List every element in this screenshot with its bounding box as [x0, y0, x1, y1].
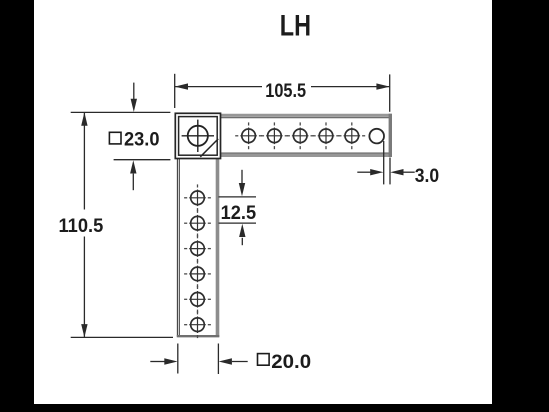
- vertical hole V1: [184, 184, 211, 211]
- corner pad chamfer diagonal: [200, 139, 218, 157]
- dimension 105.5: [175, 74, 390, 112]
- vertical hole V6: [184, 311, 211, 338]
- end hole (plain): [369, 129, 384, 144]
- svg-text:LH: LH: [280, 9, 311, 42]
- arm hole A2: [261, 122, 288, 149]
- corner pad inner square: [179, 117, 218, 156]
- vertical hole V4: [184, 261, 211, 288]
- svg-text:20.0: 20.0: [271, 351, 311, 373]
- vertical arm outline: [177, 157, 220, 337]
- corner hole: [182, 120, 214, 152]
- dimension 23.0: [114, 83, 171, 191]
- right letterbox bar: [492, 0, 549, 412]
- vertical hole V2: [184, 210, 211, 237]
- arm hole A1: [235, 122, 262, 149]
- corner pad outer square: [175, 113, 220, 158]
- arm hole A3: [287, 122, 314, 149]
- svg-text:3.0: 3.0: [415, 165, 439, 187]
- left letterbox bar: [0, 0, 34, 412]
- vertical hole V3: [184, 235, 211, 262]
- arm hole A5: [338, 122, 365, 149]
- svg-text:110.5: 110.5: [59, 215, 104, 237]
- vertical hole V5: [184, 286, 211, 313]
- svg-text:12.5: 12.5: [221, 202, 257, 224]
- dimension 12.5: [219, 170, 257, 245]
- dimension 3.0: [357, 141, 414, 184]
- svg-text:105.5: 105.5: [265, 80, 306, 102]
- bottom letterbox bar: [0, 404, 549, 412]
- dimension 20.0: [150, 344, 247, 375]
- dimension 110.5: [71, 112, 173, 337]
- arm hole A4: [313, 122, 340, 149]
- horizontal arm outline: [220, 114, 392, 157]
- svg-text:23.0: 23.0: [124, 129, 160, 151]
